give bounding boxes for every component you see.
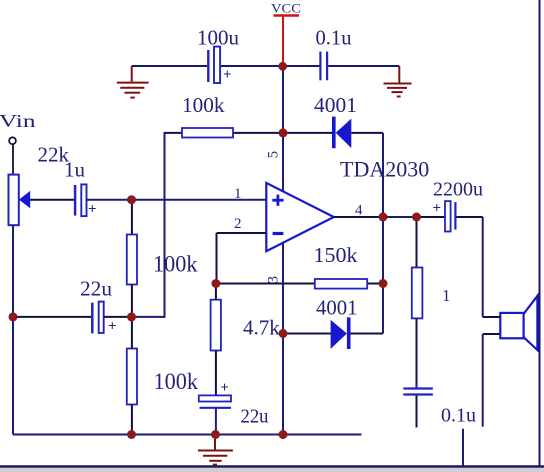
svg-text:4.7k: 4.7k bbox=[243, 316, 280, 340]
capacitor 22u (bottom) bbox=[199, 380, 269, 435]
svg-text:100k: 100k bbox=[153, 252, 198, 277]
speaker LS1 bbox=[500, 296, 537, 350]
wire bottom rail bbox=[13, 434, 362, 436]
svg-text:4001: 4001 bbox=[316, 296, 358, 320]
wire speaker drop bbox=[483, 217, 501, 427]
wire pot wiper to C 1u bbox=[30, 199, 75, 201]
svg-text:100k: 100k bbox=[154, 369, 199, 394]
node VCC junction top bbox=[278, 62, 287, 71]
resistor 100k (divider upper) bbox=[127, 235, 198, 285]
wire input to pot bbox=[12, 144, 14, 174]
wire C1u to pin 1 bbox=[87, 199, 267, 201]
svg-text:2200u: 2200u bbox=[433, 179, 483, 201]
node bottom 22u junction bbox=[211, 430, 220, 439]
node output junction 2 bbox=[412, 213, 421, 222]
node pin2 junction bbox=[211, 279, 220, 288]
resistor 100k (divider lower) bbox=[127, 317, 199, 435]
svg-text:TDA2030: TDA2030 bbox=[340, 157, 429, 182]
frame right border bbox=[539, 0, 541, 467]
svg-text:Vin: Vin bbox=[0, 111, 36, 131]
node bias junction bbox=[279, 128, 288, 137]
diode D2 4001 (lower, cathode right) bbox=[283, 296, 383, 350]
wire R to 22u node bbox=[131, 285, 133, 317]
capacitor 0.1u (top) bbox=[316, 26, 352, 81]
svg-text:0.1u: 0.1u bbox=[441, 405, 476, 427]
node diode2 left junction bbox=[279, 329, 288, 338]
svg-text:+: + bbox=[223, 67, 232, 83]
diode D1 4001 (top, cathode left) bbox=[314, 93, 357, 148]
VCC power symbol bbox=[271, 1, 301, 67]
node output junction 1 bbox=[379, 213, 388, 222]
svg-text:+: + bbox=[108, 319, 117, 335]
svg-text:22u: 22u bbox=[80, 277, 113, 301]
node pin1 junction bbox=[127, 195, 136, 204]
potentiometer 22k bbox=[9, 143, 70, 226]
wire feedback row y=283.5 bbox=[216, 283, 383, 285]
pin 2 label bbox=[234, 216, 242, 232]
label 0.1u (bottom) bbox=[441, 405, 476, 427]
wire bottom-right drop to rail bbox=[462, 429, 464, 466]
input terminal circle bbox=[9, 137, 16, 144]
node bottom pin3 junction bbox=[279, 430, 288, 439]
pin 5 label bbox=[266, 151, 282, 159]
resistor 4.7k bbox=[211, 284, 221, 396]
pin 4 label bbox=[355, 203, 363, 219]
frame bottom border bbox=[0, 467, 544, 472]
label Vin bbox=[0, 111, 36, 131]
wire left rail pot to bottom bbox=[12, 226, 14, 435]
wire output y=217 bbox=[334, 216, 483, 218]
pin 3 label bbox=[266, 276, 282, 284]
svg-text:2: 2 bbox=[234, 216, 242, 232]
ground (top-left) bbox=[117, 66, 149, 98]
svg-text:22u: 22u bbox=[241, 406, 269, 428]
op-amp U1 TDA2030 triangle bbox=[266, 183, 334, 251]
wire left bias vertical x=164.5 bbox=[164, 132, 166, 318]
svg-text:3: 3 bbox=[266, 276, 282, 284]
svg-text:+: + bbox=[88, 202, 97, 218]
label TDA2030 bbox=[340, 157, 429, 182]
wire pin 3 vertical bbox=[282, 243, 284, 435]
svg-text:4001: 4001 bbox=[314, 93, 357, 117]
capacitor 0.1u (zobel) bbox=[403, 384, 433, 428]
svg-text:VCC: VCC bbox=[271, 1, 301, 16]
resistor 150k bbox=[314, 243, 368, 289]
capacitor 1u bbox=[64, 158, 97, 218]
ground (top-right) bbox=[384, 66, 412, 97]
capacitor 2200u bbox=[433, 179, 484, 232]
svg-text:+: + bbox=[433, 201, 442, 217]
ground (bottom) bbox=[198, 435, 233, 465]
node left rail junction bbox=[9, 312, 18, 321]
resistor 100k (top) bbox=[182, 93, 233, 138]
wire right vertical x=383 bbox=[382, 133, 384, 334]
svg-text:100k: 100k bbox=[182, 93, 225, 117]
svg-text:150k: 150k bbox=[314, 243, 359, 267]
wire junction down to R divider bbox=[131, 200, 133, 235]
wire pin 2 bbox=[217, 233, 267, 284]
label 4.7k bbox=[243, 316, 280, 340]
svg-text:1u: 1u bbox=[64, 158, 86, 182]
wire bias row y=132.9 bbox=[165, 132, 384, 134]
wire top rail y=66 bbox=[132, 65, 400, 67]
capacitor 22u (left) bbox=[13, 277, 132, 335]
wire VCC rail to pin 5 bbox=[282, 66, 284, 192]
svg-text:5: 5 bbox=[266, 151, 282, 159]
node 150k right junction bbox=[379, 279, 388, 288]
svg-text:+: + bbox=[220, 380, 229, 396]
node 22u junction bbox=[127, 312, 136, 321]
node bottom divider junction bbox=[127, 430, 136, 439]
svg-text:1: 1 bbox=[442, 286, 451, 305]
svg-text:0.1u: 0.1u bbox=[316, 26, 352, 50]
resistor 1 ohm bbox=[412, 217, 451, 388]
wire 22u node to bias vertical bbox=[132, 316, 166, 318]
capacitor 100u bbox=[197, 26, 240, 84]
pin 1 label bbox=[234, 186, 242, 202]
